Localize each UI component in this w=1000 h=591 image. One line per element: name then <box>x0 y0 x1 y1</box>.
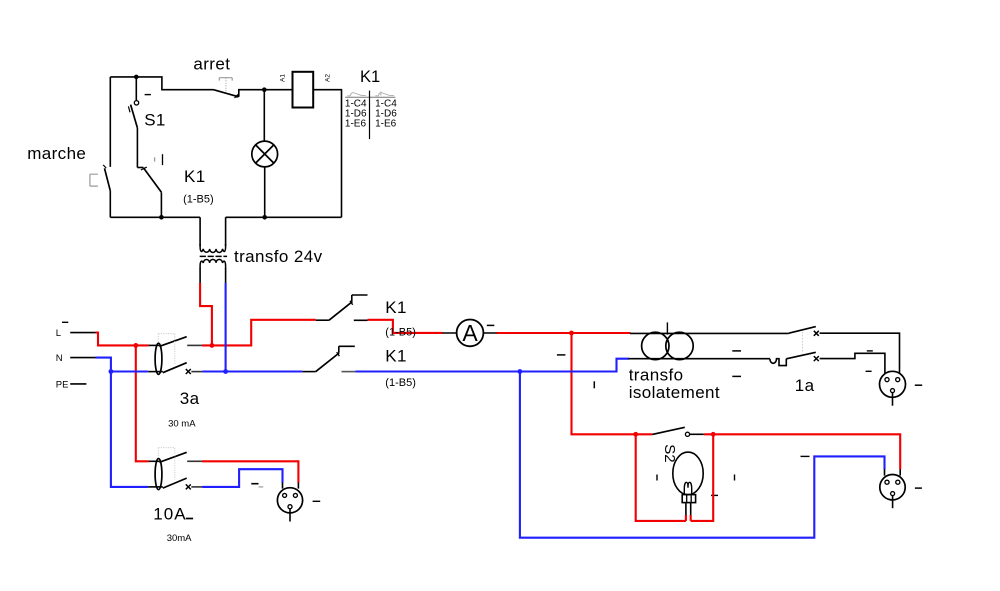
svg-text:1-E6: 1-E6 <box>345 118 367 129</box>
node junction lamp branch <box>262 87 267 92</box>
wire red S2 to lamp right <box>691 434 714 521</box>
svg-text:A: A <box>462 320 478 346</box>
socket X1 earth pin <box>289 509 291 522</box>
breaker 3a bottom arm <box>163 363 187 373</box>
ammeter P1 tick <box>487 324 495 326</box>
svg-text:transfo: transfo <box>629 366 684 385</box>
node red junction 3a output <box>210 343 215 348</box>
svg-text:A2: A2 <box>324 74 331 82</box>
wire arret to coil <box>239 90 293 97</box>
breaker 3a linkage box <box>158 334 175 365</box>
svg-text:K1: K1 <box>385 346 407 365</box>
svg-text:1a: 1a <box>795 376 815 395</box>
svg-text:K1: K1 <box>360 68 380 86</box>
socket X2 earth pin <box>892 393 894 406</box>
transformer T1 secondary pins <box>200 268 226 283</box>
lamp pilot light <box>252 90 278 218</box>
wire 1a bottom output to socket <box>820 353 885 373</box>
socket X3 stubs <box>885 469 901 476</box>
svg-text:PE: PE <box>56 380 69 391</box>
terminal tick L <box>62 321 68 323</box>
svg-text:10A: 10A <box>153 505 187 524</box>
wire coil to right vertical <box>313 90 341 218</box>
node blue junction N entry <box>109 369 114 374</box>
contact K1 upper pole <box>316 295 368 320</box>
switch S2 output stub <box>690 433 704 435</box>
wire red S2 to socket X3 <box>713 434 900 469</box>
socket X3 pin holes <box>885 480 889 484</box>
wire S1 to K1 aux <box>136 128 138 168</box>
svg-text:K1: K1 <box>385 298 407 317</box>
breaker 10A top output <box>187 460 202 462</box>
node red junction L entry <box>133 343 138 348</box>
svg-text:(1-B5): (1-B5) <box>183 193 214 205</box>
wire blue transfo secondary right down <box>225 283 227 372</box>
transformer T1 bottom winding <box>200 259 226 268</box>
breaker 3a x mark <box>186 369 191 374</box>
breaker 1a top arm <box>789 327 816 334</box>
wire red lamp pin tails <box>686 515 691 521</box>
wire blue branch bottom bus <box>520 372 885 538</box>
wire red transfo secondary left down <box>200 283 212 345</box>
wire red branch S2 circuit <box>572 333 653 434</box>
breaker 1a bottom arm <box>786 352 816 359</box>
node red junction ammeter line <box>569 331 574 336</box>
transformer T2 isolatement bottom wire <box>629 358 770 360</box>
socket X2 body <box>880 371 906 397</box>
lamp E1 pins <box>686 503 691 516</box>
wire red branch to 10A <box>136 345 149 461</box>
wire red after K1 contact to ammeter <box>368 320 443 333</box>
socket X3 body <box>880 475 905 500</box>
svg-text:S1: S1 <box>144 111 166 130</box>
breaker 3a sensing toroid <box>155 343 162 374</box>
switch S2 arm <box>652 427 685 434</box>
svg-text:3a: 3a <box>180 389 200 408</box>
wire blue branch to 10A <box>111 372 148 487</box>
socket X1 terminal ticks <box>251 483 258 485</box>
socket X2 pin holes <box>885 378 889 382</box>
breaker 10A top arm <box>159 452 186 462</box>
svg-text:arret: arret <box>193 55 230 74</box>
terminal ticks transfo secondary <box>557 354 566 356</box>
svg-text:30mA: 30mA <box>167 533 192 544</box>
terminal ticks 1a outputs <box>867 350 873 352</box>
breaker 10A bottom output <box>191 486 202 488</box>
wire PE stub <box>70 383 86 385</box>
wire N blue entry jog <box>96 358 149 372</box>
socket X1 stubs <box>283 483 299 489</box>
transformer T2 top tick <box>666 322 668 334</box>
breaker 1a linkage <box>802 332 804 353</box>
breaker 10A sensing toroid <box>155 459 162 490</box>
breaker 10A top pole <box>149 460 160 462</box>
socket X3 earth pin <box>892 496 894 508</box>
transformer T2 isolatement top wire <box>630 332 789 334</box>
transformer T2 left winding <box>642 332 669 359</box>
wire red after 10A to socket <box>202 461 299 482</box>
svg-text:30 mA: 30 mA <box>168 419 196 430</box>
contact K1 auxiliary (self hold) <box>137 154 162 192</box>
node junction bottom left <box>159 215 164 220</box>
svg-text:K1: K1 <box>184 167 206 186</box>
breaker 3a top arm <box>159 337 186 347</box>
breaker 1a x mark top <box>814 331 819 336</box>
breaker 10A bottom pole <box>148 486 163 488</box>
K1 table vertical rule <box>369 91 371 140</box>
breaker 1a x mark bottom <box>814 356 819 361</box>
wire marche to bottom <box>109 191 111 218</box>
wire L red entry jog <box>96 333 149 346</box>
socket X2 tick <box>915 384 922 386</box>
transformer T1 top winding <box>200 244 226 252</box>
node blue junction transfo drop <box>223 369 228 374</box>
svg-text:marche: marche <box>27 144 86 163</box>
lamp E1 terminal ticks <box>656 475 658 481</box>
wire blue after K1 contact to transfo isolatement <box>355 359 629 372</box>
K1 table horizontal rule <box>345 96 395 98</box>
wire control loop top <box>110 77 213 90</box>
switch marche (NO pushbutton) <box>90 165 110 191</box>
lamp E1 screw base <box>682 495 695 503</box>
contact K1 lower pole <box>303 346 356 371</box>
node red junction S2 right <box>711 432 716 437</box>
K1 table mini NC contact glyph <box>375 93 394 96</box>
svg-text:L: L <box>56 328 61 339</box>
socket X1 pin holes <box>283 493 287 497</box>
node junction lamp bottom <box>262 215 267 220</box>
wire red 3a output to K1 contact <box>202 320 316 346</box>
wire blue after 10A to socket <box>202 469 282 487</box>
wire L stub <box>70 332 95 334</box>
svg-text:1-E6: 1-E6 <box>375 118 397 129</box>
wire red S2 to lamp left <box>636 434 686 521</box>
svg-text:(1-B5): (1-B5) <box>385 377 416 389</box>
breaker 3a RCD top pole <box>149 344 160 346</box>
ammeter P1 leads <box>442 332 496 334</box>
wire control loop left vertical <box>109 77 111 167</box>
ammeter P1 body <box>457 320 484 347</box>
breaker 1a magnetic element <box>770 359 786 366</box>
svg-text:N: N <box>56 353 63 364</box>
wire S1 drop <box>135 77 137 101</box>
breaker 10A bottom arm <box>163 478 187 488</box>
pushbutton arret (NC) <box>214 78 240 99</box>
breaker 10A linkage box <box>158 448 175 480</box>
transformer T1 core <box>200 255 227 257</box>
transformer T2 right winding <box>666 332 693 359</box>
socket X3 tick <box>915 487 922 489</box>
K1 table tick <box>380 92 382 96</box>
breaker 3a bottom output <box>191 371 202 373</box>
transformer T1 transfo 24v primary pins <box>200 217 226 246</box>
wire red ammeter to transfo isolatement <box>497 332 631 334</box>
svg-text:(1-B5): (1-B5) <box>385 327 416 339</box>
coil K1 <box>293 72 314 108</box>
breaker 3a bottom pole <box>148 371 163 373</box>
wire blue 3a output to K1 contact <box>202 370 303 372</box>
switch S1 (NO pushbutton) <box>128 95 151 128</box>
wire K1 aux to bottom <box>160 192 162 217</box>
svg-text:isolatement: isolatement <box>629 383 720 402</box>
wire control loop bottom <box>110 216 341 218</box>
switch S2 pivot circle <box>685 432 689 436</box>
wire N stub <box>70 357 95 359</box>
lamp E1 filament <box>684 482 691 494</box>
socket X1 body <box>277 488 302 513</box>
node junction S1 branch <box>134 75 139 80</box>
svg-text:transfo 24v: transfo 24v <box>234 247 323 266</box>
lamp E1 bulb <box>673 452 703 495</box>
breaker 10A x mark <box>186 484 191 489</box>
breaker 3a top output <box>187 344 202 346</box>
svg-text:A1: A1 <box>280 74 287 82</box>
K1 table mini NO contact glyph <box>347 93 366 96</box>
wire 1a top output to socket <box>820 333 900 373</box>
node red junction S2 left <box>633 432 638 437</box>
svg-text:S2: S2 <box>661 444 678 462</box>
node blue junction bottom bus <box>518 369 523 374</box>
